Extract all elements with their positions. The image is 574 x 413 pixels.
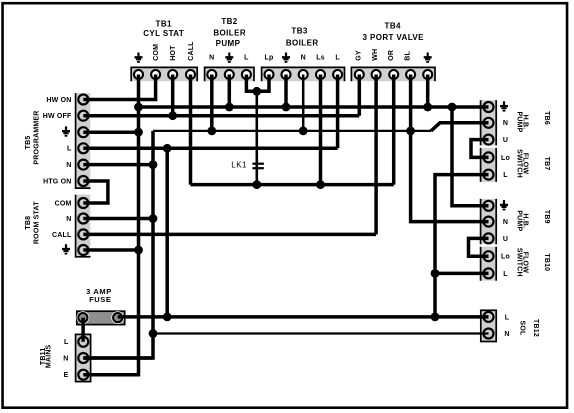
svg-text:BL: BL [405,51,412,61]
svg-text:PUMP: PUMP [515,210,522,231]
svg-text:Lp: Lp [265,55,274,62]
svg-text:LK1: LK1 [231,160,247,169]
svg-text:L: L [503,172,508,179]
svg-text:N: N [503,219,508,226]
svg-text:TB5: TB5 [25,136,32,150]
svg-text:ROOM STAT: ROOM STAT [34,201,41,244]
svg-text:COM: COM [153,44,160,61]
svg-text:L: L [503,271,508,278]
svg-text:SOL: SOL [519,321,526,337]
svg-text:PUMP: PUMP [515,111,522,132]
svg-text:Lo: Lo [501,155,510,162]
svg-text:TB4: TB4 [385,22,401,31]
svg-text:TB3: TB3 [291,27,307,36]
svg-text:N: N [301,55,306,62]
svg-text:PUMP: PUMP [216,39,241,48]
svg-text:CALL: CALL [188,41,195,61]
svg-text:U: U [503,236,508,243]
svg-text:3 PORT VALVE: 3 PORT VALVE [362,33,424,42]
svg-text:TB7: TB7 [543,157,550,171]
svg-text:L: L [335,55,340,62]
svg-text:N: N [209,55,214,62]
svg-text:L: L [244,55,249,62]
svg-text:PROGRAMMER: PROGRAMMER [34,110,41,164]
svg-text:N: N [504,331,509,338]
svg-text:CALL: CALL [52,232,72,239]
svg-text:U: U [503,137,508,144]
svg-text:OR: OR [388,50,395,61]
svg-text:TB8: TB8 [25,216,32,230]
svg-text:GY: GY [356,50,363,61]
svg-text:BOILER: BOILER [286,39,319,48]
svg-text:HTG ON: HTG ON [43,178,71,185]
svg-text:N: N [63,355,68,362]
svg-text:N: N [503,120,508,127]
svg-text:HW OFF: HW OFF [43,113,72,120]
svg-text:HOT: HOT [170,45,177,61]
svg-text:TB1: TB1 [156,20,172,29]
svg-text:L: L [64,339,69,346]
svg-text:MAINS: MAINS [46,344,53,368]
svg-text:TB2: TB2 [221,17,237,26]
svg-text:L: L [67,146,72,153]
svg-text:SWITCH: SWITCH [515,248,522,277]
svg-text:N: N [66,216,71,223]
svg-text:TB9: TB9 [543,210,550,224]
svg-text:Ls: Ls [316,55,325,62]
svg-text:CYL STAT: CYL STAT [143,29,184,38]
svg-text:TB10: TB10 [543,253,550,271]
svg-text:N: N [66,162,71,169]
svg-text:BOILER: BOILER [213,29,246,38]
svg-text:TB6: TB6 [543,111,550,125]
svg-text:WH: WH [372,49,379,61]
svg-text:Lo: Lo [501,254,510,261]
svg-text:HW ON: HW ON [46,97,71,104]
svg-text:COM: COM [55,200,72,207]
svg-text:SWITCH: SWITCH [515,149,522,178]
svg-text:FUSE: FUSE [89,295,111,304]
svg-text:L: L [505,314,510,321]
svg-text:E: E [64,372,69,379]
svg-text:TB12: TB12 [532,319,539,337]
